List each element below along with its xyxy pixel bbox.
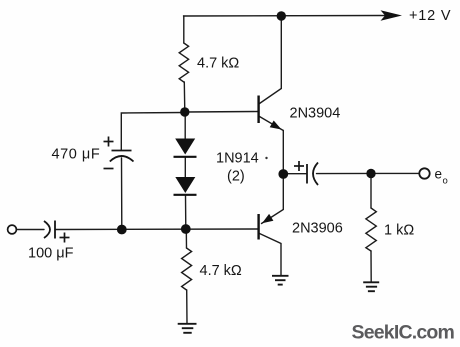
ground below R3 xyxy=(178,324,197,333)
capacitor C3 output coupling plates xyxy=(307,163,318,186)
input terminal xyxy=(8,225,17,234)
svg-text:100 μF: 100 μF xyxy=(28,246,74,262)
capacitor C3 plus sign xyxy=(294,161,304,171)
ground below R2 xyxy=(363,282,379,291)
capacitor C2 plus sign xyxy=(60,233,70,243)
wire node A to 2N3904 base xyxy=(185,111,258,114)
junction dot top rail xyxy=(277,11,286,20)
transistor Q2 2N3906 base bar xyxy=(257,214,259,240)
wire node B to output cap C3 xyxy=(283,173,306,175)
wire left drop from top rail to R1 xyxy=(183,16,185,43)
svg-text:4.7 kΩ: 4.7 kΩ xyxy=(200,263,242,279)
junction dot input rail / diodes xyxy=(181,224,191,234)
svg-text:SeekIC.com: SeekIC.com xyxy=(352,322,455,344)
transistor Q1 2N3904 collector xyxy=(260,16,282,104)
junction dot output / R2 xyxy=(366,169,375,178)
capacitor C1 minus sign xyxy=(104,168,114,170)
wire node B down to 2N3906 emitter xyxy=(262,174,284,224)
svg-text:2N3906: 2N3906 xyxy=(292,221,343,237)
svg-text:e: e xyxy=(435,167,443,182)
svg-text:o: o xyxy=(443,176,448,187)
transistor Q2 emitter arrowhead xyxy=(262,214,273,223)
svg-text:1N914: 1N914 xyxy=(216,151,259,167)
output terminal xyxy=(419,168,429,178)
ground below Q2 collector xyxy=(272,276,289,285)
wire diode chain top lead xyxy=(184,112,186,139)
wire Q1 emitter down to node B xyxy=(282,131,284,175)
svg-text:+12 V: +12 V xyxy=(409,8,451,24)
diode D1 1N914 xyxy=(174,139,197,157)
stray period after 1N914 xyxy=(265,157,267,159)
wire R1 bottom to node A xyxy=(183,82,186,112)
wire R2 to ground xyxy=(370,251,372,282)
wire 1k resistor top lead xyxy=(370,174,372,208)
wire node A left to C1 branch xyxy=(121,113,185,151)
transistor Q1 emitter arrowhead xyxy=(270,121,282,130)
svg-text:470 μF: 470 μF xyxy=(52,147,101,163)
wire lower resistor lead + R3 ground lead xyxy=(185,229,187,248)
svg-text:4.7 kΩ: 4.7 kΩ xyxy=(197,56,239,72)
capacitor C1 plus sign xyxy=(104,137,114,147)
wire between diodes D1 D2 xyxy=(184,157,186,178)
resistor R3 4.7 kOhm (bottom) xyxy=(182,248,192,290)
node B junction dot xyxy=(278,169,288,179)
diode D2 1N914 xyxy=(174,177,197,195)
svg-text:1 kΩ: 1 kΩ xyxy=(384,223,414,239)
svg-text:(2): (2) xyxy=(227,169,245,185)
wire R3 to ground xyxy=(186,290,188,324)
svg-text:2N3904: 2N3904 xyxy=(290,106,341,122)
node A junction dot xyxy=(180,107,189,116)
transistor Q1 2N3904 base bar xyxy=(257,96,259,124)
wire top rail +12V xyxy=(184,15,386,18)
transistor Q2 2N3906 collector xyxy=(260,234,282,276)
power arrow +12V xyxy=(381,10,403,21)
resistor R1 4.7 kOhm (top) xyxy=(179,43,188,82)
wire input terminal to C2 xyxy=(17,229,45,231)
wire input rail xyxy=(55,228,258,231)
wire C3 to output terminal xyxy=(317,172,420,174)
resistor R2 1 kOhm xyxy=(366,208,376,251)
wire D2 to input rail xyxy=(185,195,187,229)
capacitor C1 470uF plates xyxy=(110,151,134,162)
transistor Q1 2N3904 emitter xyxy=(260,117,284,131)
junction dot input rail / C1 xyxy=(117,225,127,235)
wire C1 bottom to input rail xyxy=(121,158,123,230)
capacitor C2 100uF plates xyxy=(44,221,55,239)
